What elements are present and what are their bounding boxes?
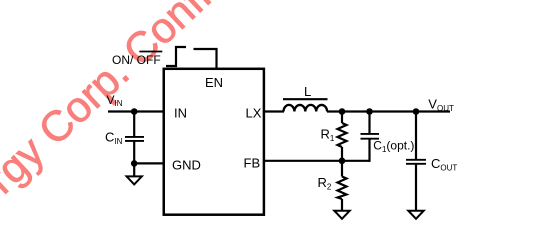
svg-text:C1(opt.): C1(opt.) [373,139,414,155]
svg-text:VOUT: VOUT [428,97,454,114]
svg-text:R1: R1 [321,127,335,144]
svg-text:R2: R2 [318,175,332,192]
svg-text:CIN: CIN [105,130,123,147]
svg-text:GND: GND [172,158,201,173]
svg-text:COUT: COUT [431,156,457,173]
svg-text:FB: FB [244,156,261,171]
svg-text:LX: LX [246,106,262,121]
svg-text:ON/ OFF: ON/ OFF [112,53,161,67]
svg-text:IN: IN [174,106,187,121]
svg-text:L: L [304,84,311,99]
svg-text:EN: EN [205,75,223,90]
